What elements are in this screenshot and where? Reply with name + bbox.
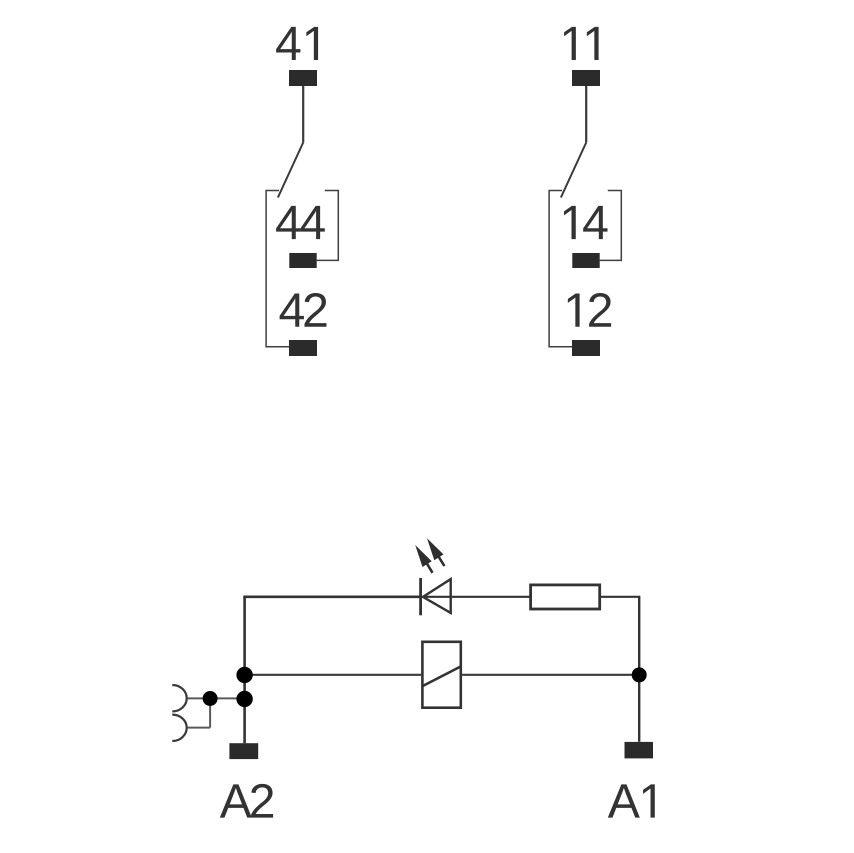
wire middle horizontal (coil to A1) [462, 674, 639, 676]
junction node A1 [632, 667, 647, 682]
junction node A2 lower [236, 691, 252, 707]
label 14 [564, 206, 608, 239]
bracket left of 44/42 group [266, 191, 290, 347]
contact blade 11-14 [561, 143, 586, 198]
LED emission arrow 1 [415, 545, 432, 573]
polarity connector wire horizontal upper [187, 697, 245, 699]
junction node connector [203, 691, 218, 706]
wire A2 vertical [243, 597, 246, 743]
label 42 [280, 293, 327, 327]
label 44 [276, 206, 325, 239]
LED triangle [423, 579, 451, 613]
resistor R1 [531, 585, 600, 609]
bracket left of 14/12 group [549, 191, 573, 347]
contact blade 41-44 [278, 143, 303, 198]
polarity connector arc upper [172, 685, 186, 711]
wire from terminal 11 [585, 86, 587, 143]
terminal 12 [572, 340, 600, 356]
bracket right of 44 [317, 191, 339, 261]
wire top horizontal (A2 to LED) [243, 595, 420, 598]
relay coil K1 box [422, 642, 460, 708]
polarity connector wire vertical [209, 698, 211, 727]
wire top horizontal (resistor to A1 corner) [601, 596, 641, 598]
wire A1 vertical [638, 597, 640, 742]
label A1 [608, 784, 655, 817]
wire from terminal 41 [302, 86, 304, 143]
wire middle horizontal (A2 to coil) [245, 674, 422, 676]
polarity connector wire horizontal lower [187, 727, 210, 729]
terminal 41 [289, 70, 317, 86]
label 12 [568, 293, 611, 327]
label 41 [276, 27, 318, 60]
junction node A2 upper [236, 667, 252, 683]
bracket right of 14 [600, 191, 622, 261]
LED cathode bar [419, 578, 422, 615]
LED emission arrow 2 [427, 538, 444, 566]
terminal A2 [229, 743, 258, 759]
label A2 [220, 784, 273, 818]
terminal 42 [289, 340, 317, 356]
terminal 14 [572, 253, 599, 268]
terminal 44 [289, 253, 316, 268]
relay coil diagonal [422, 666, 462, 686]
polarity connector arc lower [172, 715, 186, 741]
terminal 11 [572, 70, 600, 86]
wire top horizontal (LED to resistor) [422, 596, 529, 598]
terminal A1 [625, 742, 654, 759]
label 11 [564, 27, 599, 60]
